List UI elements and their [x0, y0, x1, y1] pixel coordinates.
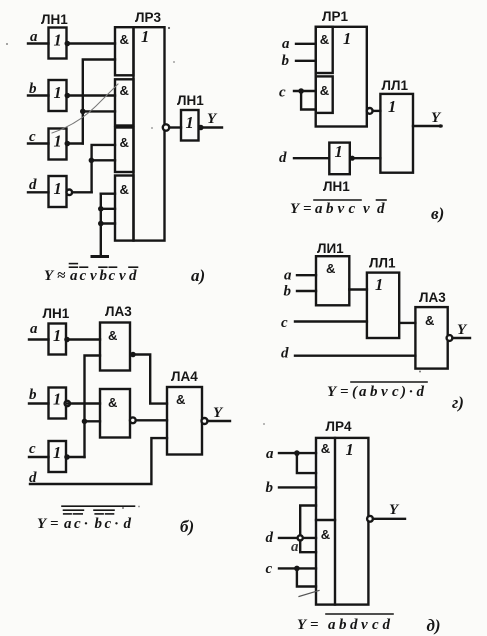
svg-text:v: v [381, 384, 388, 400]
svg-text:&: & [320, 83, 329, 98]
wire a-inverter output to LR3 cell1 pin1 [67, 42, 115, 44]
node: LA4 output bubble [202, 418, 208, 424]
node: LR1 inverting output bubble [367, 108, 373, 114]
node a input label (circuit v) [282, 36, 290, 52]
IC label LL1 (OR gate, circuit g) [369, 256, 396, 271]
wire input b [28, 94, 49, 96]
svg-text:v: v [90, 268, 97, 284]
wire c-out to vertical V1 [67, 142, 83, 144]
node: inverter b output bubble-dot [65, 401, 70, 406]
sub-circuit label a) [191, 266, 205, 285]
svg-text:ЛА3: ЛА3 [105, 304, 132, 319]
NAND gate LA3 g1 [100, 323, 130, 371]
wire a branch to LR4 cell1 pin2 [297, 453, 316, 473]
svg-text:b: b [339, 617, 347, 633]
wire input a (circuit v) [296, 43, 316, 45]
svg-text:v: v [338, 201, 345, 217]
svg-text:d: d [281, 346, 289, 362]
wire d-out to vertical V2 [72, 191, 92, 193]
node a input label (circuit d) [266, 446, 274, 462]
wire input c (circuit g) [295, 320, 367, 322]
svg-text:a: a [282, 36, 290, 52]
wire a-bar to NAND g1 pin1 [67, 338, 100, 340]
LR3 AND cell 1 [115, 27, 134, 75]
wire input a [28, 42, 49, 44]
node: LR4 inverting output bubble [367, 516, 373, 522]
wire input b (circuit v) [296, 60, 316, 62]
wire output Y (circuit a) [203, 126, 222, 128]
wire LL1 output to LA3 pin1 (circuit g) [399, 322, 415, 324]
node: inverter a output bubble-dot [64, 337, 70, 343]
svg-text:&: & [120, 83, 129, 98]
formula circuit g): Y = not((ab v c) d) [327, 384, 425, 400]
node: blob at end of Y wire [439, 124, 443, 128]
scan artifact pencil curve [52, 84, 118, 133]
svg-text:b: b [282, 53, 290, 69]
LR3 AND cell 3 [115, 128, 134, 173]
svg-text:ЛН1: ЛН1 [43, 306, 70, 321]
svg-text:c: c [266, 561, 273, 577]
node: LA3 output bubble (circuit g) [447, 335, 453, 341]
svg-text:ЛН1: ЛН1 [177, 93, 204, 108]
node b input label [29, 81, 37, 97]
svg-text:1: 1 [343, 29, 351, 48]
svg-text:b: b [29, 387, 37, 403]
svg-text:c: c [109, 268, 116, 284]
svg-text:&: & [320, 32, 329, 47]
svg-text:ЛЛ1: ЛЛ1 [369, 256, 396, 271]
LR3 AND cell 2 [115, 79, 134, 125]
svg-text:в): в) [431, 204, 444, 223]
scan speckles [6, 27, 421, 509]
node junction c-bar vertical [82, 419, 88, 425]
svg-text:1: 1 [54, 179, 62, 198]
svg-text:d: d [124, 516, 132, 532]
node junction on c wire [298, 88, 304, 94]
wire input c (circuit v) [294, 90, 316, 92]
svg-text:1: 1 [335, 142, 343, 161]
wire input b (circuit d) [279, 486, 316, 488]
node junction V3 lower [98, 221, 104, 227]
IC label LA3 (NAND gate, circuit g) [419, 290, 446, 305]
svg-text:d: d [350, 617, 358, 633]
node: NAND g1 output bubble [130, 352, 136, 358]
svg-text:&: & [321, 441, 330, 456]
wire d branch down to LR4 cell2 pin2 [300, 541, 316, 553]
node b input label (circuit g) [284, 284, 292, 300]
wire stub V2 to LR3 cell3 pin2 [91, 159, 115, 161]
svg-text:a: a [266, 446, 274, 462]
svg-text:ЛР4: ЛР4 [326, 419, 352, 434]
inverter b-circuit input b [49, 388, 67, 419]
svg-text:d: d [266, 530, 274, 546]
svg-text:·: · [409, 384, 413, 400]
sub-circuit label g) [452, 393, 464, 412]
wire LI1 output to LL1 pin1 (circuit g) [349, 288, 367, 290]
svg-text:ЛА3: ЛА3 [419, 290, 446, 305]
svg-text:·: · [84, 516, 88, 532]
node c input label (circuit v) [279, 85, 286, 101]
AND-OR block LR1 body [316, 27, 367, 127]
node d input label (circuit d) [266, 530, 274, 546]
node: inverter a output dot [65, 41, 71, 47]
svg-text:&: & [120, 182, 129, 197]
wire stub to NAND g2 pin2 [85, 420, 101, 422]
IC label LI1 (AND gate, circuit g) [317, 241, 344, 256]
node junction on c wire [294, 566, 300, 572]
svg-text:d: d [279, 150, 287, 166]
svg-text:&: & [108, 395, 117, 410]
wire c-bar vertical up to NAND g1 pin2 [85, 356, 101, 458]
wire output Y (circuit v) [413, 125, 442, 127]
NAND gate LA3 g2 [100, 389, 130, 438]
node junction on V1 [80, 109, 86, 115]
IC label LL1 (OR gate, circuit v) [382, 78, 409, 93]
IC label LN1 (input inverters, circuit a) [41, 12, 68, 27]
wire input d along bottom to LA4 pin3 [30, 438, 167, 484]
IC label LA4 (3-input NAND, circuit b) [171, 369, 198, 384]
svg-text:&: & [108, 328, 117, 343]
sub-circuit label v) [431, 204, 444, 223]
svg-text:a: a [284, 268, 292, 284]
svg-text:b: b [326, 201, 334, 217]
wire input b (circuit b) [29, 402, 49, 404]
node: NAND g2 output bubble [130, 417, 136, 423]
node Y output label (circuit b) [213, 405, 224, 421]
node b input label (circuit d) [266, 480, 274, 496]
wire stub LR3 cell4 pin1 (grounded) [101, 192, 115, 194]
wire b-bar to NAND g2 pin1 [67, 402, 100, 404]
svg-text:c: c [105, 516, 112, 532]
svg-text:1: 1 [388, 97, 396, 116]
LR3 AND cell 4 [115, 176, 134, 241]
svg-text:г): г) [452, 393, 464, 412]
IC label LR3 (AND-OR block, circuit a) [135, 10, 161, 25]
inverter DD1.2 input b [49, 80, 67, 111]
node: d inverter output bubble [350, 156, 355, 161]
node junction on a wire [294, 450, 300, 456]
svg-text:ЛН1: ЛН1 [41, 12, 68, 27]
wire V1 vertical (c-bar) up to LR3 cell1 pin2 [83, 60, 115, 144]
NAND gate LA3 (circuit g) [415, 307, 447, 369]
svg-text:c: c [80, 268, 87, 284]
svg-text:b: b [100, 268, 108, 284]
wire input a (circuit d) [279, 452, 316, 454]
svg-text:1: 1 [54, 83, 62, 102]
svg-text:c: c [392, 384, 399, 400]
inverter b-circuit input c [49, 441, 67, 472]
node Y output label (circuit a) [207, 111, 218, 127]
svg-text:d: d [129, 268, 137, 284]
LR1 OR column label 1 [343, 29, 351, 48]
node: inverter b output dot [65, 93, 71, 99]
svg-text:v: v [119, 268, 126, 284]
node Y output label (circuit v) [431, 110, 442, 126]
svg-text:1: 1 [141, 27, 149, 46]
LR4 AND cell 1 label [321, 441, 330, 456]
svg-text:д): д) [427, 616, 441, 635]
inverter LN1 input d (circuit v) [329, 142, 350, 174]
IC label LN1 (output inverter, circuit a) [177, 93, 204, 108]
wire b-inverter output to LR3 cell2 pin1 [67, 94, 115, 96]
node: inverter c output bubble-dot [64, 454, 70, 460]
svg-text:1: 1 [54, 132, 62, 151]
wire output Y (circuit g) [452, 337, 470, 339]
node c input label (circuit g) [281, 315, 288, 331]
svg-text:=: = [310, 617, 319, 633]
svg-text:&: & [321, 527, 330, 542]
formula circuit d): Y = not(abd v cd) [297, 617, 391, 633]
wire LR3 output to output inverter [169, 126, 181, 128]
svg-text:d: d [29, 177, 37, 193]
svg-text:ЛЛ1: ЛЛ1 [382, 78, 409, 93]
svg-text:d: d [383, 617, 391, 633]
inverter DD1.1 input a [49, 28, 67, 59]
LR4 divider [334, 438, 336, 605]
node a input label [30, 29, 38, 45]
svg-text:c: c [349, 201, 356, 217]
svg-text:b: b [370, 384, 378, 400]
inverter b-circuit input a [49, 324, 67, 355]
LR4 OR column label 1 [346, 440, 354, 459]
wire output Y (circuit d) [373, 518, 405, 520]
svg-text:): ) [399, 384, 406, 400]
svg-text:c: c [279, 85, 286, 101]
svg-text:=: = [340, 384, 349, 400]
wire input d (circuit g) [295, 355, 415, 357]
svg-text:b: b [266, 480, 274, 496]
svg-text:≈: ≈ [57, 268, 66, 284]
wire LR1 output to LL1 pin1 [373, 110, 381, 112]
svg-text:c: c [281, 315, 288, 331]
node: LR3 inverting output bubble [163, 124, 169, 130]
svg-text:&: & [176, 392, 185, 407]
formula circuit v): Y = not(ab v c) v d-bar [290, 201, 385, 217]
svg-text:а): а) [191, 266, 205, 285]
svg-text:v: v [361, 617, 368, 633]
node junction on V2 [89, 158, 95, 164]
wire c-bar to vertical distribution [67, 456, 85, 458]
node junction ring on d wire [298, 535, 303, 540]
wire g2 output to LA4 pin2 [136, 419, 167, 421]
node b input label (circuit v) [282, 53, 290, 69]
svg-text:1: 1 [54, 31, 62, 50]
wire input a (circuit g) [297, 274, 316, 276]
node d input label [29, 177, 37, 193]
wire input c (circuit d) [279, 567, 316, 569]
wire stub LR3 cell4 pin3 (grounded) [101, 222, 115, 224]
svg-text:&: & [326, 261, 335, 276]
svg-text:ЛИ1: ЛИ1 [317, 241, 344, 256]
svg-text:1: 1 [346, 440, 354, 459]
svg-text:a: a [70, 268, 78, 284]
svg-text:c: c [29, 441, 36, 457]
svg-text:1: 1 [53, 326, 61, 345]
LR1 AND cell 2 [316, 76, 333, 113]
svg-text:a: a [30, 321, 38, 337]
inverter DD1.3 input c [49, 129, 67, 160]
wire V3 vertical to ground [100, 194, 102, 257]
wire input b (circuit g) [297, 290, 316, 292]
scan artifact diagonal stroke [299, 591, 319, 597]
svg-text:=: = [303, 201, 312, 217]
svg-text:&: & [120, 32, 129, 47]
svg-text:d: d [417, 384, 425, 400]
NAND gate LA4 [167, 387, 202, 455]
sub-circuit label d) [427, 616, 441, 635]
wire stub LR3 cell4 pin2 (grounded) [101, 208, 115, 210]
wire input c [28, 142, 49, 144]
svg-text:1: 1 [53, 390, 61, 409]
svg-text:ЛР3: ЛР3 [135, 10, 161, 25]
node Y output label (circuit g) [457, 322, 468, 338]
IC label LA3 (NAND gates, circuit b) [105, 304, 132, 319]
LR1 AND cell 1 [316, 27, 333, 73]
wire input c (circuit b) [29, 456, 49, 458]
node d input label (circuit v) [279, 150, 287, 166]
scan artifact small mark [291, 539, 299, 555]
AND-OR-invert block LR3 body [134, 27, 165, 240]
wire c branch to LR1 cell2 pin2 [301, 91, 316, 110]
wire output Y (circuit b) [208, 420, 231, 422]
sub-circuit label b) [180, 517, 194, 536]
wire stub V1 to LR3 cell2 pin2 [83, 110, 115, 112]
LR3 OR column label 1 [141, 27, 149, 46]
svg-text:ЛН1: ЛН1 [323, 179, 350, 194]
svg-text:c: c [74, 516, 81, 532]
wire input d (circuit v) [294, 157, 329, 159]
node b input label (circuit b) [29, 387, 37, 403]
svg-text:&: & [425, 313, 434, 328]
svg-text:v: v [363, 201, 370, 217]
svg-text:a: a [64, 516, 72, 532]
IC label LR1 (AND-OR-invert, circuit v) [322, 9, 348, 24]
svg-text:a: a [328, 617, 336, 633]
node c input label [29, 129, 36, 145]
node: inverter d output bubble [67, 190, 73, 196]
svg-text:a: a [291, 539, 299, 555]
svg-text:1: 1 [186, 113, 194, 132]
wire input d [28, 191, 49, 193]
svg-text:a: a [359, 384, 367, 400]
svg-text:б): б) [180, 517, 194, 536]
wire d branch up to LR4 cell1 pin4 [300, 506, 316, 536]
node a input label (circuit b) [30, 321, 38, 337]
formula circuit b): Y = not( not(a'c') not(b'c') d ) [37, 516, 132, 532]
svg-text:ЛА4: ЛА4 [171, 369, 198, 384]
node d input label (circuit g) [281, 346, 289, 362]
node junction V3 upper [98, 206, 104, 212]
node: output inverter bubble [198, 125, 204, 131]
svg-text:ЛР1: ЛР1 [322, 9, 348, 24]
svg-text:b: b [95, 516, 103, 532]
IC label LN1 (below d inverter, circuit v) [323, 179, 350, 194]
inverter DD2 output stage [181, 110, 199, 141]
OR gate LL1 (circuit g) [367, 273, 399, 338]
AND gate LI1 [316, 256, 349, 305]
wire g1 output elbow to LA4 pin1 [133, 355, 167, 404]
wire V2 vertical (d-bar) up to LR3 cell3 pin1 [92, 145, 115, 192]
wire input d (circuit d) [279, 537, 316, 539]
svg-text:d: d [377, 201, 385, 217]
LR4 AND cell 2 label [321, 527, 330, 542]
svg-text:·: · [115, 516, 119, 532]
formula circuit a): Y = a'c' v b'c' v d' [44, 268, 137, 284]
svg-text:b: b [284, 284, 292, 300]
OR gate LL1 (circuit v) [380, 94, 413, 173]
node a input label (circuit g) [284, 268, 292, 284]
AND-OR block LR4 body [316, 438, 368, 605]
ground symbol [92, 255, 108, 258]
IC label LR4 (AND-OR-invert, circuit d) [326, 419, 352, 434]
svg-text:c: c [372, 617, 379, 633]
svg-text:&: & [120, 135, 129, 150]
node Y output label (circuit d) [389, 502, 400, 518]
node d input label (circuit b) [29, 470, 37, 486]
node c input label (circuit d) [266, 561, 273, 577]
LR4 AND cell divider [316, 519, 335, 521]
inverter DD1.4 input d [49, 176, 67, 207]
svg-text:1: 1 [375, 275, 383, 294]
node: inverter c output dot [65, 141, 71, 147]
svg-text:=: = [50, 516, 59, 532]
wire c branch down to LR4 cell2 pin4 [297, 568, 316, 586]
IC label LN1 (inverters, circuit b) [43, 306, 70, 321]
wire input a (circuit b) [29, 338, 49, 340]
wire d-bar to LL1 pin2 [355, 157, 381, 159]
node c input label (circuit b) [29, 441, 36, 457]
svg-text:a: a [315, 201, 323, 217]
svg-text:1: 1 [53, 443, 61, 462]
